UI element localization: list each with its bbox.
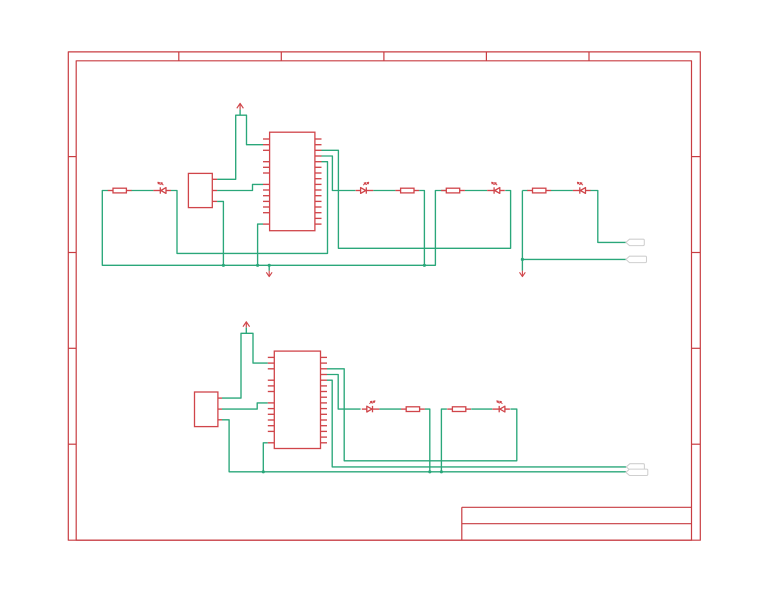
IC U1 — [263, 132, 322, 231]
title block — [462, 507, 692, 540]
wire net X1 pin3 to ground rail — [217, 201, 223, 265]
junction ground rail / U1 pin16 — [256, 264, 259, 267]
junction ground rail / X1 pin3 — [222, 264, 225, 267]
wire net X1 pin2 jog to U1 left pin9 — [217, 184, 263, 190]
resistor R2 — [395, 188, 419, 193]
frame top column ticks — [179, 52, 589, 61]
wire net R3.2 to LED3 anode — [465, 190, 487, 192]
supply V+ symbol VCC2 — [243, 322, 250, 334]
junction bottom rail / U2 pin16 — [262, 470, 265, 473]
wire net U2 left pin16 to bottom rail — [263, 443, 268, 472]
wire net R1.1 to bottom rail to R3.1 — [102, 191, 446, 266]
wire net LED4 cathode to pad P1 — [590, 191, 626, 243]
junction ground rail / R2.2 — [423, 264, 426, 267]
wire net U2 right pin5 to pad P3 — [327, 380, 626, 467]
wire net U1 right pin3 loop to LED3 cathode — [322, 150, 511, 248]
wire net U1 left pin16 to ground rail — [258, 224, 263, 265]
junction R4 branch / GND2 — [521, 258, 524, 261]
LED D6 — [492, 401, 510, 413]
supply V+ symbol VCC1 — [237, 103, 244, 115]
wire net R4.1 down to ground junction — [522, 191, 527, 271]
IC U2 — [268, 351, 327, 448]
wire net LED5 cathode to R5.1 — [379, 408, 401, 410]
wire net R2.2 down to ground rail — [419, 191, 424, 266]
resistor R6 — [447, 407, 471, 412]
connector pad P2 — [626, 256, 647, 262]
wire net ground junction to pad P2 — [522, 258, 626, 260]
junction bottom rail / R6.1 — [440, 470, 443, 473]
LED D1 — [153, 182, 171, 194]
wire net U2 right pin4 to LED5 anode — [327, 375, 361, 410]
frame inner border — [76, 61, 691, 540]
wire net U2 right pin3 loop to LED6 cathode — [327, 369, 517, 461]
resistor R5 — [401, 407, 425, 412]
frame right row ticks — [692, 157, 701, 445]
wire net LED2 cathode to R2.1 — [373, 190, 395, 192]
connector pad P3 — [626, 464, 644, 470]
frame left row ticks — [68, 157, 76, 445]
wire net LED1 cathode loop to U1 pin (right row 5) — [171, 162, 328, 254]
wire net X1 pin1 to V+ tee to U1 left pin2 — [217, 115, 263, 179]
frame outer border — [68, 52, 700, 540]
wire net R6.2 to LED6 anode — [471, 408, 492, 410]
LED D3 — [487, 182, 505, 194]
3-pin module X2 — [195, 392, 223, 427]
LED D2 — [356, 182, 374, 194]
wire net R5.2 down to bottom rail — [425, 409, 430, 472]
LED D5 — [362, 401, 380, 413]
wire net R1.2 to LED1 anode — [131, 190, 153, 192]
resistor R1 — [108, 188, 132, 193]
resistor R4 — [527, 188, 551, 193]
wire net R4.2 to LED4 anode — [551, 190, 573, 192]
junction ground rail / GND1 — [268, 264, 271, 267]
ground symbol GND2 — [520, 271, 526, 277]
junction bottom rail / R5.2 — [428, 470, 431, 473]
connector pad P1 — [626, 239, 644, 245]
wire net R6.1 down to bottom rail — [441, 409, 447, 472]
wire net X2 pin2 jog to U2 left pin9 — [222, 403, 268, 409]
connector pad P4 — [626, 469, 648, 475]
LED D4 — [573, 182, 591, 194]
resistor R3 — [441, 188, 465, 193]
3-pin module X1 — [188, 173, 217, 207]
wire net X2 pin3 along bottom rail to pad P4 — [222, 420, 626, 472]
ground symbol GND1 — [266, 265, 272, 276]
wire net U1 right pin4 to LED2 anode — [322, 156, 356, 191]
wire net X2 pin1 to V+ tee to U2 left pin2 — [222, 333, 268, 398]
